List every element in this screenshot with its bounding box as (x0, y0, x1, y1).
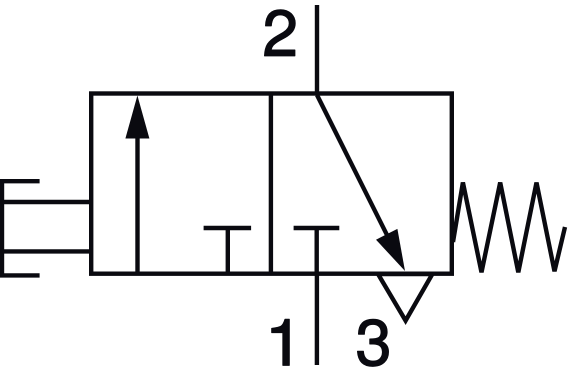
flow arrow 1-2 head (125, 96, 149, 139)
position divider (269, 94, 273, 274)
blocked port T right bar (294, 226, 340, 230)
flow arrow 2-3 head (376, 229, 405, 271)
push-button actuator top arm (0, 179, 40, 183)
label port 2 (265, 10, 296, 56)
port 1 line (315, 272, 319, 365)
exhaust triangle port 3 (378, 274, 432, 321)
valve body (91, 94, 452, 274)
flow arrow 2-3 stem (317, 95, 398, 257)
flow arrow 1-2 stem (135, 137, 139, 272)
blocked port T left bar (204, 226, 252, 230)
label port 1 (272, 319, 289, 365)
actuator stem upper rail (0, 200, 92, 204)
spring return (453, 183, 565, 273)
actuator stem lower rail (0, 249, 92, 253)
blocked port T left stem (226, 228, 230, 272)
port 2 line (315, 5, 319, 95)
push-button actuator cap vertical (0, 179, 4, 277)
label port 3 (358, 319, 389, 366)
push-button actuator bottom arm (0, 273, 40, 277)
blocked port T right stem (315, 228, 319, 272)
